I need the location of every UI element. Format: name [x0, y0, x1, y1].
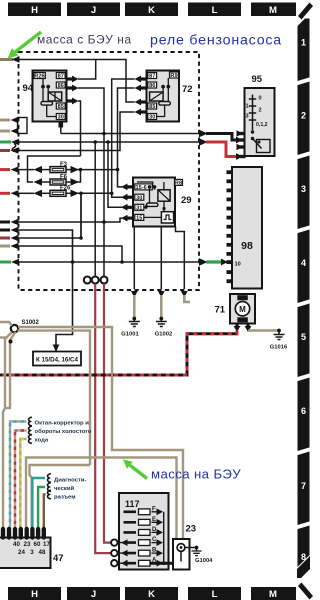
ground G1001	[121, 317, 140, 338]
wire: tan splice to vertical x112 then over to box 23 (outer path)	[18, 327, 183, 539]
svg-text:94: 94	[23, 83, 34, 94]
svg-text:K: K	[148, 589, 155, 600]
svg-text:86: 86	[58, 83, 64, 89]
dashed boundary box of ECU harness area	[19, 52, 200, 290]
top header grid cell K	[125, 3, 178, 17]
annotation: масса на БЭУ	[151, 467, 241, 482]
module 29 (fuel pump control) body	[133, 178, 183, 227]
label: октан-корректор и обороты холостого хода	[35, 421, 92, 444]
svg-text:48: 48	[39, 549, 46, 556]
relay block 117 body	[119, 493, 169, 570]
ECU connector 47 body	[0, 538, 51, 569]
junction box K15/D4 16/C4	[33, 352, 81, 366]
svg-text:87: 87	[149, 74, 155, 80]
motor 71 terminal arrows	[234, 324, 252, 333]
relay 72 (fuel pump relay) body	[147, 71, 180, 122]
ground G1002	[155, 317, 172, 338]
svg-text:G1001: G1001	[121, 332, 139, 338]
svg-text:15-6: 15-6	[136, 185, 147, 191]
fuse F6 joining F3 output	[34, 170, 81, 186]
wire: red striped octane wire from brace to ECU pin 3	[15, 431, 27, 530]
svg-text:R8: R8	[175, 181, 182, 187]
wire: second tan from left edge joining splice drop	[0, 336, 8, 338]
fuse F26 row with feed from left edge	[0, 186, 112, 197]
connector 98 pin teeth	[227, 170, 233, 283]
connector 98 pin 10 label	[235, 262, 241, 268]
svg-text:2: 2	[301, 111, 306, 121]
wire: left edge maroon row y238 down x81 to splice bundle	[0, 193, 83, 241]
svg-text:разъем: разъем	[54, 495, 76, 501]
svg-text:масса с БЭУ на: масса с БЭУ на	[37, 33, 132, 47]
wire: maroon drop from right circle to block 117 row C	[104, 284, 111, 543]
wire: relay72 pin87 down x111.7 to module 29 pin30 feed	[112, 79, 135, 197]
wire: cyan striped octane wire from brace to ECU pin 2	[10, 422, 27, 530]
svg-text:117: 117	[125, 499, 140, 509]
top header grid cell H	[8, 3, 61, 17]
svg-text:1: 1	[301, 38, 306, 48]
block 117 fuse rows F-A	[124, 506, 164, 566]
wire: left edge row y230 down to junction box K15	[0, 227, 74, 352]
svg-text:3: 3	[246, 114, 249, 120]
connector 47 pin numbers	[13, 541, 50, 556]
wire: relay94 pin30 stub down to supply row A	[59, 120, 64, 134]
svg-text:85: 85	[58, 104, 64, 110]
wire: drop from module 29 right side through border, short tan hook	[176, 227, 191, 303]
bottom header grid cell J	[67, 587, 120, 600]
bottom header grid cell L	[188, 587, 241, 600]
wire: left edge row y222 to module 29 pin 15	[0, 218, 122, 225]
svg-text:F6: F6	[60, 174, 68, 180]
svg-text:G1016: G1016	[270, 345, 288, 351]
splice arc between left rows	[12, 144, 16, 152]
left edge connector box with two tan stubs y120/y131	[0, 117, 27, 134]
svg-text:хода: хода	[35, 438, 49, 444]
relay 72 input arrows pins 87/86/85/30	[135, 76, 147, 116]
svg-text:0,1,2: 0,1,2	[256, 122, 268, 128]
svg-text:Октан-корректор и: Октан-корректор и	[35, 421, 90, 427]
svg-text:J: J	[91, 5, 96, 16]
svg-text:31: 31	[136, 206, 142, 212]
wire: green diagnostic wire to ECU pin 7	[38, 487, 45, 529]
wire: feed of module 29 pin 31 from row y142	[108, 142, 122, 207]
wire: relay94 pin86 down through row A junction to right circle	[78, 88, 104, 276]
svg-text:95: 95	[252, 74, 263, 85]
svg-text:23: 23	[24, 541, 31, 548]
top header grid cell L	[188, 3, 241, 17]
ECU connector 98 body	[232, 167, 262, 289]
label: диагностический разъем	[54, 478, 86, 501]
svg-text:реле бензонасоса: реле бензонасоса	[150, 33, 282, 49]
svg-text:85: 85	[149, 104, 155, 110]
svg-text:71: 71	[215, 305, 226, 316]
svg-text:масса на БЭУ: масса на БЭУ	[151, 467, 241, 482]
fuse F3 with feed from left edge	[0, 162, 119, 173]
relay 94 output arrows pins 87/86/85	[67, 76, 79, 105]
svg-text:R9: R9	[170, 73, 177, 79]
wire: brown diagnostic wire to ECU pin 8	[44, 495, 46, 530]
connector 47 label	[53, 553, 64, 564]
svg-text:L: L	[212, 5, 218, 16]
svg-text:0: 0	[259, 96, 262, 102]
wire: green row y262 to connector 98 pin 10	[0, 258, 228, 266]
svg-text:30: 30	[136, 195, 142, 201]
wire: box 23 to ground G1004	[185, 547, 195, 549]
bottom header grid cell H	[8, 587, 61, 600]
svg-text:H: H	[31, 589, 38, 600]
wire: maroon drop from middle circle to block 117 row B	[95, 284, 111, 553]
svg-text:5: 5	[301, 332, 306, 342]
svg-text:10: 10	[235, 262, 241, 268]
splice S1002 ring	[11, 320, 40, 332]
relay 94 (main relay) body	[33, 71, 67, 122]
ground G1004	[192, 546, 214, 564]
bottom header grid cell K	[125, 587, 178, 600]
wire: F26 branch down x81 to maroon row y238	[80, 193, 82, 238]
motor 71 label	[215, 305, 226, 316]
svg-text:4: 4	[301, 258, 306, 268]
svg-text:H: H	[31, 5, 38, 16]
svg-text:8: 8	[301, 552, 306, 562]
wire: tan splice branch x90 down to mass row y465	[18, 331, 91, 465]
connector 47 pin stubs	[3, 529, 44, 538]
relay 94 label	[23, 83, 34, 94]
sensor box 23	[173, 539, 190, 570]
top header grid cell J	[67, 3, 120, 17]
ignition switch 95 body	[245, 88, 275, 156]
wire: module 29 drop to ground G1001	[131, 227, 138, 318]
wire: supply row A y133.5 to ignition switch 95	[61, 130, 243, 144]
svg-text:24: 24	[18, 549, 25, 556]
wire: row y156 across to fuse F6 feed	[28, 156, 81, 182]
svg-text:M: M	[269, 589, 277, 600]
svg-text:6: 6	[301, 406, 306, 416]
svg-text:7: 7	[301, 481, 306, 491]
wire: relay94 pin87 up to ground line W1	[78, 60, 96, 80]
svg-text:30: 30	[58, 115, 64, 121]
svg-text:M: M	[239, 305, 246, 314]
wire: tan splice pair down to ECU pin 1 with tie bar	[3, 332, 16, 529]
wire: red/black striped from motor to left edge	[0, 331, 237, 376]
svg-text:3: 3	[301, 184, 306, 194]
svg-text:K: K	[148, 5, 155, 16]
octane corrector arc terminals	[29, 417, 32, 443]
svg-text:обороты холостого: обороты холостого	[35, 428, 92, 435]
junction of F26 row with relay72 pin87 drop	[110, 192, 114, 196]
box 23 label	[186, 524, 197, 535]
wire: mass row y465 left to ECU pin 6	[30, 465, 91, 529]
module 29 input arrows	[121, 184, 133, 222]
svg-text:30: 30	[149, 115, 155, 121]
top header grid cell M	[251, 3, 296, 17]
junction circles below ECU area	[84, 277, 108, 284]
svg-text:47: 47	[53, 553, 64, 564]
top right corner diagonal	[298, 3, 313, 20]
wire: maroon-tagged row y150.5 up to relay72 pin85	[0, 112, 135, 154]
wire: black drops into circles	[94, 142, 96, 276]
svg-text:87: 87	[58, 74, 64, 80]
svg-text:3: 3	[30, 549, 34, 556]
wire: teal diagnostic wire to ECU pin 6	[32, 478, 45, 529]
wire: yellow striped octane wire from brace to ECU pin 4	[20, 439, 26, 529]
svg-text:L: L	[212, 589, 218, 600]
svg-text:40: 40	[13, 541, 20, 548]
ignition switch 95 label	[252, 74, 263, 85]
bottom header grid cell M	[251, 587, 296, 600]
wire: relay72 pin86 down x117.5 to module 29 pin15-6 feed	[118, 88, 135, 187]
svg-text:G1002: G1002	[155, 332, 172, 338]
svg-text:J: J	[91, 589, 96, 600]
right margin column with row numbers 1-8	[296, 19, 311, 579]
svg-text:F26: F26	[60, 186, 71, 192]
wire: green-tagged row y142 from left edge to ignition switch red feed	[0, 138, 243, 160]
ignition switch 95 pin stubs	[237, 130, 246, 158]
wire: relay94 pin85 to vertical x80.5 down to row y156	[78, 101, 81, 156]
svg-text:98: 98	[241, 240, 253, 252]
svg-text:2: 2	[259, 108, 262, 114]
svg-text:S1002: S1002	[22, 320, 40, 326]
motor 71 (fuel pump) body	[230, 294, 255, 324]
svg-text:29: 29	[181, 195, 192, 206]
svg-text:60: 60	[34, 541, 41, 548]
title annotation: масса с БЭУ на реле бензонасоса	[37, 33, 282, 49]
wire: tan from motor to ground G1016	[248, 329, 278, 332]
wire: thick output row A to box 23	[150, 561, 183, 565]
svg-text:86: 86	[149, 83, 155, 89]
green annotation arrow to node at top left	[8, 32, 42, 59]
svg-text:23: 23	[186, 524, 197, 535]
svg-text:Диагности-: Диагности-	[54, 478, 86, 484]
svg-text:72: 72	[182, 84, 193, 95]
diagnostic connector arc terminals	[48, 474, 51, 499]
svg-text:F3: F3	[60, 162, 68, 168]
block 117 input rings rows C/B/A	[111, 539, 128, 566]
module 29 label	[181, 195, 192, 206]
svg-text:К 15/D4, 16/C4: К 15/D4, 16/C4	[36, 357, 79, 364]
svg-text:15: 15	[136, 216, 142, 222]
svg-text:G1004: G1004	[195, 558, 213, 564]
svg-text:17: 17	[43, 541, 50, 548]
svg-text:1: 1	[246, 104, 249, 110]
svg-text:ческий: ческий	[54, 485, 74, 492]
wire: mass line from ECU pin 5 right to box 23 (inner path)	[26, 458, 177, 540]
wire: left edge row y246 to ground drop x122	[0, 243, 122, 262]
bottom right corner diagonal	[298, 583, 313, 600]
ground G1016	[270, 329, 288, 351]
wire: module 29 drop to ground G1002	[158, 227, 165, 318]
relay 72 label	[182, 84, 193, 95]
wire: ground from ECU to fuel pump relay (node at left edge y60)	[0, 56, 135, 102]
wire: tan from left edge into splice	[0, 322, 12, 326]
green annotation arrow to mass wire	[123, 460, 147, 479]
svg-text:M: M	[269, 5, 277, 16]
